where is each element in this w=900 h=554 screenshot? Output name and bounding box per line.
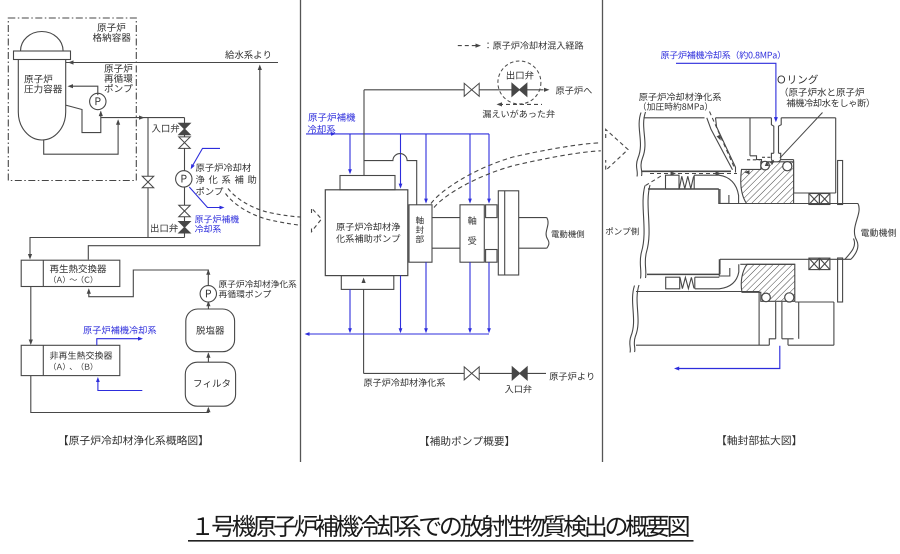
big dashed block-arrow into pump suction (from left panel)	[312, 208, 322, 232]
arrow into vessel top	[68, 60, 74, 64]
drain chamber inner wall right	[798, 302, 800, 339]
discharge pipe from aux pump to reactor	[364, 89, 544, 91]
outlet valve (出口弁) filled	[179, 222, 191, 234]
O-ring pointer line	[780, 113, 823, 159]
outlet open valve	[179, 205, 191, 217]
leak arrowhead at channel exit pointing left	[744, 170, 750, 174]
leak arrowhead up-right into slot chamber	[769, 158, 775, 164]
bottom gland ring rect	[666, 277, 680, 289]
pipe recirc pump up and to regen HX bottom	[89, 270, 209, 297]
label 電動機側 middle	[552, 230, 584, 238]
pump casing top outline with vent bump	[364, 154, 417, 205]
label 出口弁 middle	[507, 71, 534, 80]
O-ring 1 (failed)	[761, 161, 770, 170]
open valve on suction	[464, 367, 479, 380]
label フィルタ	[194, 379, 229, 387]
caption 【軸封部拡大図】	[723, 435, 795, 445]
CUW recirculation pump P	[200, 286, 216, 302]
panel divider left	[300, 0, 302, 462]
inlet open valve	[179, 137, 191, 149]
shaft left step	[719, 259, 721, 274]
blue CCW header	[306, 133, 489, 135]
label 原子炉へ	[556, 86, 592, 94]
suction arrowhead inside hat	[362, 278, 366, 284]
lower casing wavy break	[634, 285, 639, 352]
upper casing bottom edge	[642, 170, 732, 172]
housing edge above O-ring 2	[781, 159, 794, 161]
cover L-bar bottom	[838, 258, 843, 302]
gland ring rect (top)	[666, 175, 680, 189]
seal follower (top)	[694, 175, 738, 203]
label 非再生熱交換器	[50, 351, 112, 359]
sleeve right end verticals	[719, 189, 721, 204]
O-ring 2	[783, 162, 792, 171]
pipe non-regen HX to filter	[31, 376, 209, 413]
return line-B regen HX to feedwater	[88, 67, 259, 260]
channel left wall (slanted)	[707, 118, 733, 170]
housing bottom edge near bearing	[794, 192, 836, 194]
bypass open valve	[142, 176, 154, 188]
label 原子炉冷却材浄化系 right	[639, 93, 721, 102]
label 原子炉冷却材浄化系再循環ポンプ	[219, 280, 297, 288]
label 電動機側 right	[861, 228, 896, 236]
leak arrowhead 2	[716, 171, 722, 175]
motor shaft lines	[519, 217, 547, 219]
label （原子炉水と原子炉	[786, 88, 864, 97]
label 原子炉冷却材浄 化系補助ポンプ	[336, 222, 400, 231]
seal follower (bottom)	[695, 264, 739, 289]
filter vessel フィルタ	[185, 362, 235, 406]
label （加圧時約8MPa）	[644, 102, 707, 110]
lower casing drain chamber wall	[758, 292, 760, 346]
blue drain arrowhead left	[674, 367, 679, 371]
blue drop 2 to pump body	[400, 134, 402, 187]
bearing squares top ⊠⊠	[809, 194, 820, 205]
pipe vessel bottom loop	[44, 121, 118, 155]
pipe line-A to regen HX	[30, 238, 185, 259]
blue pointer arrowhead	[189, 164, 195, 170]
blue pointer arrowhead right	[220, 206, 225, 210]
thick pump-side sleeve top edge	[648, 188, 719, 190]
small box bottom right of bearing	[486, 250, 497, 263]
arrow to reactor	[544, 88, 550, 92]
pump top hat	[340, 176, 395, 190]
label 入口弁 middle	[505, 385, 532, 393]
non-regenerative heat exchanger box 非再生熱交換器	[21, 345, 120, 375]
O-ring 4 (bottom)	[785, 293, 794, 302]
arrow up into pump line	[206, 269, 210, 275]
arrow into non-regen HX	[29, 340, 33, 346]
housing top edge right of slot	[781, 117, 836, 119]
arrow crossing containment boundary	[139, 116, 145, 120]
label 再生熱交換器	[50, 264, 106, 273]
blue header arrowhead	[331, 132, 336, 136]
inlet valve (入口弁) filled	[179, 123, 191, 135]
channel right wall (slanted)	[716, 118, 736, 173]
blue pointer line to CCW slot	[676, 63, 776, 119]
outlet valve filled (leaking)	[512, 83, 527, 96]
pipe vessel outlet to recirc pump suction	[66, 105, 101, 133]
label 原子炉冷却材浄化系 middle	[364, 378, 445, 386]
open valve on discharge	[464, 83, 479, 96]
caption 【補助ポンプ概要】	[426, 436, 508, 446]
leak arrowhead in channel	[717, 135, 723, 142]
left panel dashed leak curves to middle panel	[228, 189, 301, 218]
spring (bottom)	[680, 277, 694, 288]
upper casing wavy break edge	[641, 112, 645, 176]
spring (top)	[679, 176, 693, 188]
sleeve notch at seal (top)	[719, 189, 729, 203]
lower casing bottom edge	[636, 344, 769, 346]
lower housing top edge right of ring	[795, 301, 834, 303]
housing right edge	[835, 118, 837, 193]
thin shaft bottom line	[720, 258, 851, 260]
cover L-bar top	[838, 161, 843, 205]
leak arrowhead up through O-ring seat	[765, 161, 769, 166]
lower casing top edge	[636, 291, 759, 293]
label 原子炉格納容器	[97, 23, 125, 32]
pipe recirc pump discharge to vessel	[70, 86, 98, 95]
shaft lower step line	[740, 263, 795, 265]
caption 【原子炉冷却材浄化系概略図】	[65, 435, 202, 445]
leak arrowhead 1	[671, 171, 677, 175]
label 補機冷却水をしゃ断）	[787, 99, 869, 108]
label 給水系より	[225, 50, 270, 59]
blue arrowhead right	[138, 337, 143, 341]
non-regen HX internal divider	[42, 345, 44, 375]
label 原子炉補機冷却系 blue	[195, 215, 239, 223]
upper casing block top edge	[644, 117, 705, 119]
inlet valve filled 入口弁 middle	[512, 367, 527, 380]
CCW slot opening walls	[771, 118, 773, 154]
label 原子炉冷却材浄化系補助ポンプ	[196, 163, 251, 172]
label 入口弁	[152, 124, 179, 133]
label 原子炉より	[550, 372, 594, 380]
big dashed block-arrow into right panel	[606, 129, 628, 170]
label Oリング	[778, 74, 818, 84]
legend text ：原子炉冷却材混入経路	[487, 41, 583, 49]
bypass pipe with valve	[147, 118, 149, 238]
arrow into regen HX top	[28, 254, 32, 260]
CUW suction line from reactor	[364, 372, 546, 374]
blue CCW outlet from non-regen HX	[97, 339, 141, 346]
dashed mixing curves from seal to right panel	[431, 143, 601, 204]
pipe regen HX left compartment down to non-regen HX	[30, 287, 32, 344]
blue pointer from aux pump down-right	[189, 187, 222, 208]
label 原子炉補機冷却系（約0.8MPa） blue	[661, 51, 780, 60]
label 原子炉再循環ポンプ	[104, 64, 132, 73]
blue drain line to CCW return	[676, 346, 780, 369]
shaft between seal and bearing	[432, 217, 460, 219]
label 出口弁	[151, 224, 178, 233]
aux pump P (原子炉冷却材浄化系補助ポンプ)	[176, 171, 192, 187]
housing inner step to O-ring zone	[750, 156, 762, 162]
housing inner vertical	[749, 118, 751, 156]
arrow into vessel side	[68, 84, 74, 88]
shaft seal box 軸封部	[409, 205, 432, 262]
label ポンプ側	[606, 227, 639, 235]
label 脱塩器	[196, 326, 224, 335]
feedwater line (給水系より)	[66, 62, 278, 64]
blue pointer to aux pump	[192, 148, 221, 167]
dashed leak path along sleeve gap	[650, 173, 737, 175]
slot chamber above O-ring	[771, 153, 773, 159]
main title １号機原子炉補機冷却系での放射性物質検出の概要図	[196, 515, 688, 537]
drain slot narrow walls	[775, 302, 777, 339]
label 原子炉補機冷却系 blue middle	[308, 113, 355, 122]
shaft break symbol	[546, 218, 549, 249]
blue CCW return header with left arrow	[307, 333, 490, 335]
blue arrowhead up into HX	[96, 377, 100, 382]
label 漏えいがあった弁	[483, 110, 555, 118]
coupling flange plates	[498, 191, 518, 275]
arrow up into pump	[206, 301, 210, 307]
arrow joining discharge header	[116, 119, 120, 125]
leak arrowhead left	[497, 102, 503, 106]
bearing box 軸受	[460, 205, 484, 262]
panel divider right	[602, 0, 604, 462]
hatched rotating seal ring (bottom)	[741, 264, 795, 301]
regenerative heat exchanger box 再生熱交換器	[21, 260, 120, 286]
reactor pressure vessel (原子炉圧力容器)	[21, 32, 64, 52]
arrow up into regen HX bottom	[87, 288, 91, 294]
O-ring 3 (bottom)	[762, 293, 771, 302]
CUW supply pipe down from header	[184, 118, 186, 171]
main title underline	[188, 540, 694, 542]
dashed leak arrow under valve	[499, 103, 542, 105]
drain slot T opening	[769, 339, 775, 345]
regen HX internal divider	[42, 260, 44, 286]
demineralizer vessel 脱塩器	[186, 309, 235, 352]
aux pump discharge riser	[363, 90, 365, 176]
pipe pump outlet header to inlet valve line	[101, 117, 185, 119]
housing top edge left of slot	[716, 117, 772, 119]
blue drop 1 to pump top hat	[349, 134, 351, 173]
containment vessel dashed box (原子炉格納容器)	[8, 18, 136, 181]
leak path in slanted channel	[710, 112, 734, 167]
blue drop 5 to small box	[488, 134, 490, 202]
shaft end break curve	[851, 204, 859, 260]
slot chamber bottom arc	[771, 159, 780, 162]
blue verticals below pump to CCW return header	[349, 289, 351, 331]
hatched rotating seal ring (top)	[741, 162, 794, 204]
label 原子炉圧力容器	[24, 75, 52, 84]
arrow up into filter	[206, 407, 210, 413]
pipe demineralizer to CUW recirc pump	[207, 302, 209, 309]
arrow up into demineralizer	[206, 352, 210, 358]
arrow into recirc pump	[99, 111, 103, 117]
bearing squares bottom ⊠⊠	[809, 258, 820, 270]
leak path over O-rings	[747, 159, 761, 161]
sleeve left wavy break	[645, 185, 650, 278]
suction pipe up into pump	[363, 289, 365, 373]
small box top right of bearing	[486, 205, 497, 218]
legend dashed arrow	[458, 45, 477, 47]
sleeve bottom edge	[647, 273, 719, 275]
blue drop 3 to seal box	[425, 134, 427, 202]
pipe filter to demineralizer	[207, 354, 209, 363]
lower housing right edge	[833, 302, 835, 345]
blue pointer arrowhead down into slot	[774, 117, 778, 122]
blue drop 4 to bearing box	[469, 134, 471, 202]
dashed circle around leaking valve	[498, 61, 541, 104]
pump bottom hat	[341, 276, 394, 290]
arrow return into feedwater line	[258, 65, 262, 71]
aux pump main box	[325, 190, 408, 276]
housing inner vertical right of ring	[793, 160, 795, 193]
leak path diagonal from pump side	[646, 175, 664, 186]
label 原子炉補機冷却系 blue 2	[83, 326, 156, 334]
thin shaft top line	[720, 203, 858, 205]
legend arrowhead	[476, 44, 482, 48]
sleeve notch at seal (bottom)	[719, 259, 730, 276]
recirculation pump P (原子炉再循環ポンプ)	[90, 93, 106, 109]
blue CCW inlet to non-regen HX	[98, 379, 142, 391]
pipe aux pump to outlet valve	[184, 187, 186, 238]
